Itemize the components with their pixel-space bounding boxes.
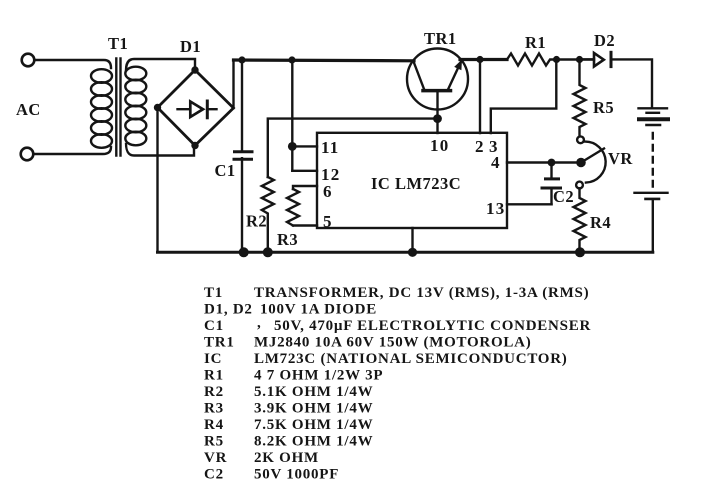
svg-text:R3: R3	[277, 230, 298, 249]
svg-text:D1: D1	[180, 37, 201, 56]
svg-text:2K OHM: 2K OHM	[254, 450, 319, 466]
svg-text:TR1: TR1	[424, 29, 457, 48]
resistor R2	[262, 177, 274, 252]
wire: pin 2 riser	[479, 60, 481, 134]
svg-text:IC: IC	[204, 351, 222, 367]
junction: R4 bottom	[575, 247, 585, 257]
svg-text:6: 6	[323, 182, 333, 201]
AC input terminal top	[22, 54, 35, 67]
wire: secondary bottom to bridge bottom vertex	[126, 144, 194, 156]
wire: top rail left segment	[234, 58, 415, 62]
svg-text:D2: D2	[594, 31, 615, 50]
junction: rail / pins 11-12 drop	[288, 56, 295, 63]
wire: secondary top to bridge top vertex	[126, 59, 195, 70]
svg-text:T1: T1	[108, 34, 128, 53]
junction: bridge left vertex	[154, 104, 161, 111]
potentiometer VR	[576, 136, 606, 188]
wire: rail segment R1 to D2	[557, 58, 595, 60]
junction: rail / pin 2 riser	[476, 56, 483, 63]
parts list line VR	[204, 450, 319, 466]
svg-text:AC: AC	[16, 100, 41, 119]
wire: pin 12 link	[292, 170, 317, 172]
svg-text:11: 11	[321, 138, 339, 157]
svg-text:13: 13	[486, 199, 505, 218]
svg-text:TRANSFORMER, DC 13V (RMS), 1-3: TRANSFORMER, DC 13V (RMS), 1-3A (RMS)	[254, 285, 589, 301]
svg-text:5.1K OHM 1/4W: 5.1K OHM 1/4W	[254, 384, 373, 400]
parts list line T1	[204, 285, 589, 301]
bridge rectifier D1 diamond	[158, 70, 234, 146]
wire: pin 3 to rail	[491, 60, 557, 133]
wire: bottom terminal to transformer primary	[34, 147, 112, 154]
svg-text:100V 1A DIODE: 100V 1A DIODE	[260, 302, 377, 318]
svg-text:C1: C1	[204, 318, 224, 334]
svg-text:C2: C2	[553, 187, 574, 206]
svg-text:10: 10	[430, 136, 449, 155]
svg-text:2: 2	[475, 137, 485, 156]
transistor TR1	[407, 49, 468, 134]
diode symbol inside D1	[178, 101, 217, 118]
battery B1	[635, 108, 669, 252]
junction: bridge top vertex	[191, 66, 198, 73]
svg-text:4: 4	[491, 153, 501, 172]
wire: bridge left vertex down	[156, 108, 158, 253]
wire: IC pin 13	[507, 203, 552, 205]
svg-text:VR: VR	[608, 149, 633, 168]
resistor R1	[507, 54, 557, 66]
wire: bottom rail	[158, 251, 653, 254]
svg-text:R2: R2	[204, 384, 224, 400]
svg-text:MJ2840 10A 60V 150W (MOTOROLA): MJ2840 10A 60V 150W (MOTOROLA)	[254, 335, 532, 351]
wire: top rail right segment	[460, 58, 507, 61]
resistor R5	[574, 60, 586, 137]
junction: pin 4 / C2	[548, 159, 556, 167]
junction: rail / C1	[238, 56, 245, 63]
parts list line R4	[204, 417, 373, 433]
junction: IC ground	[408, 248, 417, 257]
parts list line R1	[204, 368, 383, 384]
diode D2	[583, 52, 611, 66]
parts list line C1	[204, 315, 591, 334]
parts list line D1 D2	[204, 302, 377, 318]
svg-text:5: 5	[323, 212, 333, 231]
junction: rail / R5 top	[576, 56, 583, 63]
svg-text:R3: R3	[204, 401, 224, 417]
junction: bridge bottom vertex	[191, 142, 198, 149]
svg-text:R2: R2	[246, 212, 267, 231]
resistor R3	[287, 189, 299, 226]
junction: pin 4 / VR wiper	[576, 158, 586, 168]
junction: C1 bottom	[239, 247, 249, 257]
parts list line IC	[204, 351, 568, 367]
svg-text:3.9K OHM 1/4W: 3.9K OHM 1/4W	[254, 401, 373, 417]
svg-text:4 7 OHM 1/2W 3P: 4 7 OHM 1/2W 3P	[254, 368, 383, 384]
svg-text:50V 1000PF: 50V 1000PF	[254, 467, 339, 483]
transformer T1 primary winding	[91, 69, 112, 148]
transformer T1 core	[116, 59, 120, 156]
wire: top terminal to transformer primary	[35, 60, 112, 68]
svg-text:R1: R1	[204, 368, 224, 384]
svg-text:LM723C (NATIONAL SEMICONDUCTOR: LM723C (NATIONAL SEMICONDUCTOR)	[254, 351, 568, 367]
svg-text:TR1: TR1	[204, 335, 235, 351]
svg-text:T1: T1	[204, 285, 223, 301]
wire: R3 bottom to IC pin 5	[293, 224, 317, 226]
parts list line R3	[204, 401, 373, 417]
wire: bridge right vertex up to top rail	[232, 60, 234, 108]
junction: TR1 base node	[433, 114, 442, 123]
parts list line R2	[204, 384, 373, 400]
svg-text:C1: C1	[215, 161, 236, 180]
svg-text:,: ,	[257, 315, 262, 331]
svg-text:C2: C2	[204, 467, 224, 483]
wire: D2 to battery	[611, 59, 652, 106]
svg-text:VR: VR	[204, 450, 227, 466]
capacitor C1	[234, 60, 252, 252]
wire: IC pin 4	[507, 161, 581, 163]
svg-text:R4: R4	[590, 213, 611, 232]
svg-text:R1: R1	[525, 33, 546, 52]
svg-text:IC LM723C: IC LM723C	[371, 174, 461, 193]
transformer T1 secondary winding	[125, 67, 146, 146]
junction: R1 right / pin 3 riser	[553, 56, 560, 63]
svg-text:R5: R5	[593, 98, 614, 117]
AC input terminal bottom	[21, 148, 34, 161]
parts list line TR1	[204, 335, 532, 351]
wire: rail down to IC pin 11	[292, 60, 317, 171]
parts list line R5	[204, 434, 373, 450]
wire: base node to R2 top	[268, 119, 438, 177]
svg-text:R4: R4	[204, 417, 224, 433]
wire: IC pin 6 to R3 top	[293, 186, 317, 189]
junction: R2 bottom	[263, 247, 273, 257]
junction at pin 11 wire	[288, 142, 297, 151]
IC U1 LM723C body	[317, 133, 507, 228]
svg-text:7.5K OHM 1/4W: 7.5K OHM 1/4W	[254, 417, 373, 433]
svg-text:50V, 470µF ELECTROLYTIC CONDEN: 50V, 470µF ELECTROLYTIC CONDENSER	[274, 318, 591, 334]
wire: IC ground pin to bottom rail	[411, 228, 413, 252]
svg-text:R5: R5	[204, 434, 224, 450]
capacitor C2	[542, 163, 561, 205]
parts list line C2	[204, 467, 339, 483]
resistor R4	[574, 188, 586, 252]
svg-text:D1, D2: D1, D2	[204, 302, 253, 318]
svg-text:8.2K OHM 1/4W: 8.2K OHM 1/4W	[254, 434, 373, 450]
